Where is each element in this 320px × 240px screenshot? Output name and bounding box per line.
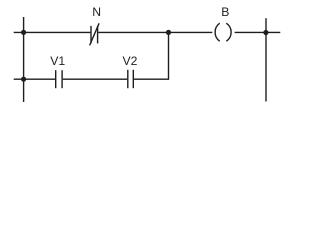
svg-text:N: N — [92, 5, 101, 19]
svg-text:V1: V1 — [50, 54, 65, 68]
svg-text:V2: V2 — [123, 54, 138, 68]
svg-text:B: B — [221, 5, 229, 19]
